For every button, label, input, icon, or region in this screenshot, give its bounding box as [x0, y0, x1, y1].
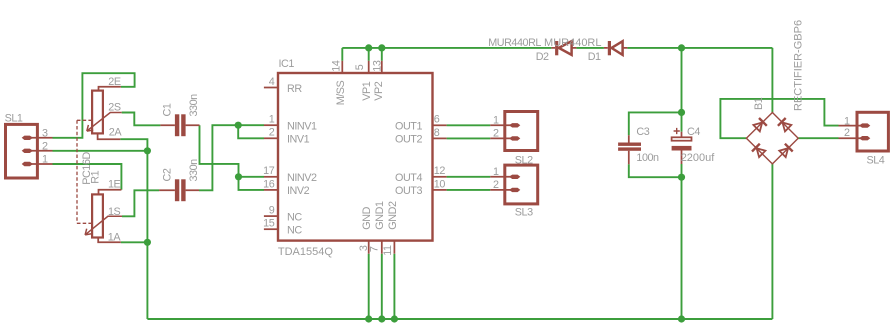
SL2 pin 1 [490, 123, 520, 127]
svg-text:RECTIFIER-GBP6: RECTIFIER-GBP6 [793, 20, 805, 111]
node gnd pin11 junction [391, 315, 398, 322]
svg-text:RR: RR [287, 83, 302, 95]
bridge diode lower-left [752, 144, 765, 157]
svg-text:SL1: SL1 [5, 112, 23, 124]
svg-text:R1: R1 [89, 170, 101, 183]
wire gnd riser pin3 [368, 254, 370, 319]
svg-text:10: 10 [434, 178, 446, 190]
svg-text:6: 6 [434, 114, 440, 126]
capacitor C3 [618, 135, 641, 164]
svg-text:1: 1 [493, 166, 499, 178]
svg-text:330n: 330n [188, 159, 200, 182]
connector SL3 body [505, 165, 538, 204]
svg-text:INV2: INV2 [287, 185, 310, 197]
svg-text:1: 1 [493, 115, 499, 127]
svg-text:C1: C1 [162, 103, 174, 116]
svg-text:3: 3 [42, 128, 48, 140]
wire OUT4 to SL3 pin1 [447, 176, 491, 178]
svg-text:7: 7 [369, 246, 381, 252]
capacitor C4 polarized [672, 128, 692, 164]
svg-text:GND1: GND1 [374, 201, 386, 230]
IC1 pin 9 stub [264, 215, 278, 217]
svg-text:2: 2 [844, 127, 850, 139]
wire bottom ground bus [147, 318, 772, 320]
wire bridge bottom to bus [771, 164, 773, 319]
svg-text:MUR440RL: MUR440RL [488, 37, 541, 49]
wire left ground vertical [146, 151, 148, 319]
svg-text:1E: 1E [108, 179, 121, 191]
pot 1A terminal [98, 238, 121, 243]
svg-text:GND: GND [361, 206, 373, 229]
svg-text:16: 16 [263, 178, 275, 190]
svg-text:SL3: SL3 [515, 206, 533, 218]
wire pin14 riser [341, 48, 343, 61]
svg-text:NC: NC [287, 211, 302, 223]
svg-text:MUR440RL: MUR440RL [544, 37, 601, 49]
wire pot 2S to C1 [122, 113, 161, 126]
svg-text:SL2: SL2 [515, 154, 533, 166]
svg-text:2: 2 [269, 127, 275, 139]
pot 2E terminal [99, 87, 121, 91]
connector SL2 body [505, 112, 538, 151]
svg-text:TDA1554Q: TDA1554Q [278, 246, 333, 258]
svg-text:OUT3: OUT3 [395, 185, 422, 197]
svg-text:C4: C4 [687, 126, 700, 138]
wire OUT3 to SL3 pin2 [447, 189, 491, 191]
svg-text:SL4: SL4 [867, 155, 885, 167]
potentiometer R1 section 2 body [92, 91, 103, 134]
node VP1 junction [365, 44, 372, 51]
pot 1S wiper [85, 216, 122, 235]
IC1 pin 1 stub [264, 124, 278, 126]
node 1A ground junction [144, 239, 151, 246]
potentiometer R1 section 1 body [92, 194, 103, 237]
svg-text:13: 13 [372, 60, 384, 72]
pot 1E terminal [99, 190, 122, 195]
IC1 pin 4 stub [264, 87, 278, 89]
svg-text:B1: B1 [753, 97, 765, 110]
svg-text:C2: C2 [162, 168, 174, 181]
SL4 pin 2 [839, 136, 871, 140]
svg-text:2: 2 [493, 179, 499, 191]
bridge diode lower-right [779, 144, 792, 157]
node 2A ground junction [144, 147, 151, 154]
IC1 pin 8 stub [433, 137, 447, 139]
svg-text:NC: NC [287, 224, 302, 236]
svg-text:M/SS: M/SS [335, 80, 347, 105]
svg-text:8: 8 [434, 127, 440, 139]
IC1 pin 17 stub [264, 176, 278, 178]
op-amp IC U1 / TDA1554Q body [278, 73, 433, 241]
IC1 pin 2 stub [264, 137, 278, 139]
IC1 pin 7 stub [381, 241, 383, 254]
SL3 pin 2 [490, 188, 520, 192]
svg-text:2: 2 [42, 141, 48, 153]
node C4 ground junction [678, 315, 685, 322]
wire SL1 pin2 to ground [53, 150, 148, 152]
wire pot 1A to ground [121, 241, 148, 243]
node C3/C4 top junction [678, 109, 685, 116]
svg-text:1A: 1A [108, 232, 122, 244]
diode D1 MUR440RL [604, 41, 628, 55]
bridge rectifier B1 diamond [746, 113, 798, 164]
svg-text:2S: 2S [108, 102, 121, 114]
IC1 pin 11 stub [393, 241, 395, 254]
wire gnd riser pin7 [381, 254, 383, 319]
wire bridge AC1 to SL4 pin1 [720, 99, 838, 138]
bridge diode upper-left [753, 118, 766, 131]
diode D2 MUR440RL [551, 41, 576, 55]
IC1 pin 5 stub [368, 61, 370, 73]
svg-text:1S: 1S [108, 206, 121, 218]
svg-text:D2: D2 [536, 51, 549, 63]
SL1 pin 3 [22, 136, 53, 140]
svg-text:OUT2: OUT2 [395, 134, 422, 146]
wire C2 to pins 1/2 [199, 125, 264, 190]
IC1 pin 12 stub [433, 176, 447, 178]
svg-text:5: 5 [354, 64, 366, 70]
svg-text:OUT4: OUT4 [395, 172, 422, 184]
wire bus to bridge top [771, 48, 773, 113]
svg-text:11: 11 [382, 245, 394, 256]
SL1 pin 1 [22, 162, 53, 166]
node VP2 junction [378, 44, 385, 51]
pot 2S wiper [87, 113, 122, 132]
IC1 pin 16 stub [264, 189, 278, 191]
svg-text:2E: 2E [108, 76, 121, 88]
svg-text:VP2: VP2 [373, 81, 385, 101]
connector SL4 body [857, 112, 888, 151]
wire SL1 pin1 to pot 1E [53, 164, 122, 190]
svg-text:1: 1 [269, 114, 275, 126]
svg-text:17: 17 [263, 165, 275, 177]
wire SL1 pin3 to pot 2E [53, 73, 135, 138]
svg-text:2: 2 [493, 128, 499, 140]
wire pin13 riser [381, 48, 383, 61]
IC1 pin 10 stub [433, 189, 447, 191]
svg-text:C3: C3 [636, 126, 649, 138]
wire top supply bus [342, 47, 772, 49]
bridge diode upper-right [778, 118, 791, 131]
IC1 pin 14 stub [341, 61, 343, 73]
SL4 pin 1 [839, 123, 871, 127]
svg-text:15: 15 [263, 218, 275, 230]
svg-text:1: 1 [42, 154, 48, 166]
svg-text:2A: 2A [109, 127, 123, 139]
svg-text:INV1: INV1 [287, 134, 310, 146]
wire C3 loop [629, 112, 682, 177]
svg-text:NINV1: NINV1 [287, 120, 317, 132]
SL2 pin 2 [490, 136, 520, 140]
connector SL1 body [6, 124, 38, 178]
wire gnd riser pin11 [393, 254, 395, 319]
svg-text:GND2: GND2 [387, 201, 399, 230]
wire pin5 riser [368, 48, 370, 61]
node pins 1-2 junction [235, 122, 242, 129]
SL1 pin 2 [22, 149, 53, 153]
svg-text:VP1: VP1 [361, 81, 373, 101]
svg-text:D1: D1 [588, 51, 601, 63]
svg-text:14: 14 [331, 60, 343, 72]
capacitor C2 [159, 179, 199, 201]
svg-text:IC1: IC1 [279, 58, 295, 70]
wire C1 to pins 17/16 [200, 125, 265, 190]
wire OUT2 to SL2 pin2 [447, 137, 491, 139]
capacitor C1 [160, 114, 199, 136]
node gnd pin3 junction [365, 315, 372, 322]
svg-text:100n: 100n [636, 152, 659, 164]
svg-text:330n: 330n [188, 94, 200, 117]
pot 2A terminal [98, 133, 121, 139]
node supply/C4 junction [678, 44, 685, 51]
wire pot 2A to ground [120, 139, 147, 151]
svg-text:NINV2: NINV2 [287, 172, 317, 184]
IC1 pin 15 stub [264, 228, 278, 230]
svg-text:2200uf: 2200uf [681, 152, 716, 164]
IC1 pin 3 stub [368, 241, 370, 254]
svg-text:9: 9 [269, 205, 275, 217]
wire C4 vertical branch [681, 48, 683, 319]
node gnd pin7 junction [378, 315, 385, 322]
wire pot 1S to C2 [122, 190, 159, 216]
node pins 17-16 junction [235, 173, 242, 180]
SL3 pin 1 [490, 175, 520, 179]
svg-text:1: 1 [844, 115, 850, 127]
svg-text:4: 4 [269, 76, 275, 88]
wire bridge AC2 to SL4 pin2 [798, 137, 838, 139]
svg-text:OUT1: OUT1 [395, 121, 422, 133]
svg-text:12: 12 [434, 165, 446, 177]
node C3/C4 bottom junction [678, 174, 685, 181]
IC1 pin 6 stub [433, 124, 447, 126]
pot gang coupling dashed line [77, 120, 91, 223]
wire OUT1 to SL2 pin1 [447, 124, 491, 126]
IC1 pin 13 stub [381, 61, 383, 73]
